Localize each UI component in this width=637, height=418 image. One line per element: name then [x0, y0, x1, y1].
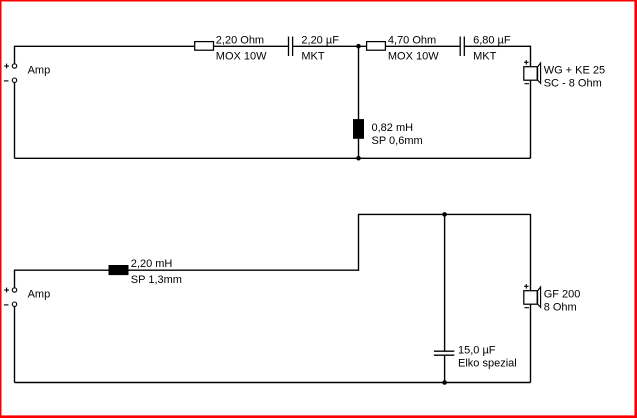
wire node A down to inductor L1 — [358, 46, 360, 119]
wire bottom rail of bottom circuit — [15, 382, 531, 384]
wire bottom rail of top circuit — [15, 157, 531, 159]
svg-text:Amp: Amp — [28, 288, 51, 300]
svg-text:6,80 µF: 6,80 µF — [473, 35, 511, 47]
amp terminal minus (bottom circuit) — [4, 302, 17, 306]
capacitor C1 2,20 uF MKT — [289, 37, 293, 57]
wire inductor L1 to bottom rail — [358, 139, 360, 159]
wire amp minus down to bottom rail — [14, 307, 16, 383]
svg-text:SP 1,3mm: SP 1,3mm — [131, 274, 182, 286]
wire speaker LS1 bottom down to bottom rail — [530, 81, 532, 159]
wire node C down to capacitor C3 — [444, 214, 446, 351]
svg-text:Elko spezial: Elko spezial — [458, 358, 517, 370]
amp terminal plus (bottom circuit) — [4, 288, 17, 293]
wire top rail left segment (amp plus to R1) — [15, 46, 195, 64]
speaker LS1 WG + KE 25 — [524, 60, 541, 84]
inductor L2 2,20 mH SP 1,3mm — [109, 265, 129, 275]
svg-text:15,0 µF: 15,0 µF — [458, 345, 496, 357]
node A junction dot — [356, 44, 361, 49]
svg-text:SP 0,6mm: SP 0,6mm — [372, 135, 423, 147]
wire C2 to top-right corner and down to speaker LS1 — [465, 46, 531, 66]
svg-text:2,20 Ohm: 2,20 Ohm — [216, 35, 264, 47]
node B junction dot (L1 to bottom rail) — [356, 156, 361, 161]
speaker LS2 GF 200 — [524, 284, 541, 308]
capacitor C3 15,0 uF Elko spezial — [434, 351, 454, 355]
svg-text:MOX 10W: MOX 10W — [216, 50, 267, 62]
svg-text:2,20 µF: 2,20 µF — [301, 35, 339, 47]
wire amp minus down to bottom rail — [14, 83, 16, 159]
capacitor C2 6,80 uF MKT — [460, 37, 464, 57]
inductor L1 0,82 mH SP 0,6mm — [353, 119, 364, 139]
node C junction dot (top of C3 branch) — [442, 212, 447, 217]
svg-text:MOX 10W: MOX 10W — [388, 50, 439, 62]
svg-text:0,82 mH: 0,82 mH — [372, 122, 414, 134]
svg-text:Amp: Amp — [28, 64, 51, 76]
wire C1 to node A and on to R2 — [293, 45, 366, 47]
resistor R1 2,20 Ohm MOX 10W — [195, 42, 214, 51]
svg-text:WG + KE 25: WG + KE 25 — [544, 65, 605, 77]
wire capacitor C3 to bottom rail — [444, 355, 446, 382]
wire bottom circuit: amp plus up and right to L2 — [15, 270, 109, 288]
node D junction dot (bottom of C3 branch) — [442, 380, 447, 385]
resistor R2 4,70 Ohm MOX 10W — [367, 42, 386, 51]
amp terminal minus (top circuit) — [4, 78, 17, 82]
svg-text:MKT: MKT — [301, 50, 325, 62]
svg-text:MKT: MKT — [473, 50, 497, 62]
wire speaker LS2 bottom down to bottom rail — [530, 305, 532, 383]
wire L2 to step-up corner — [129, 214, 445, 270]
wire R2 to C2 — [386, 45, 460, 47]
amp terminal plus (top circuit) — [4, 64, 17, 69]
wire node C to top-right corner and down to speaker LS2 — [445, 214, 531, 290]
svg-text:4,70 Ohm: 4,70 Ohm — [388, 35, 436, 47]
svg-text:8 Ohm: 8 Ohm — [544, 302, 577, 314]
wire R1 to C1 — [214, 45, 288, 47]
svg-text:GF 200: GF 200 — [544, 289, 581, 301]
svg-text:SC - 8 Ohm: SC - 8 Ohm — [544, 78, 602, 90]
svg-text:2,20 mH: 2,20 mH — [131, 258, 173, 270]
